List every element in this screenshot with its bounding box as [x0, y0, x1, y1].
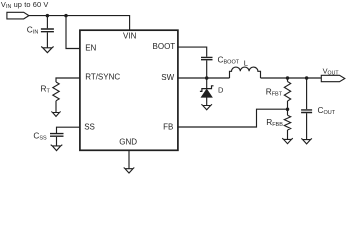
wire: diode anode to ground — [206, 97, 208, 105]
capacitor COUT — [301, 110, 312, 113]
inductor L — [230, 67, 261, 78]
ground (below CIN) — [41, 47, 53, 53]
node: output / RFBT junction — [286, 76, 290, 80]
ground (below COUT) — [301, 138, 312, 144]
capacitor CIN — [41, 29, 54, 32]
wire: RT to ground — [55, 101, 57, 113]
resistor RFBB — [284, 115, 290, 130]
wire: EN from top rail — [66, 16, 80, 49]
resistor RT — [53, 82, 59, 101]
wire: SW pin to inductor — [178, 77, 230, 79]
wire: CSS to ground — [56, 137, 58, 146]
ground (below CSS) — [51, 145, 63, 151]
wire: CIN to ground — [46, 32, 48, 47]
wire: SS to CSS — [57, 127, 80, 133]
ground (below RT) — [51, 112, 60, 117]
wire: RFBT to tap node — [287, 101, 289, 115]
wire: COUT to ground — [306, 113, 308, 139]
wire: inductor to VOUT — [261, 77, 322, 79]
svg-text:GND: GND — [119, 138, 137, 147]
diode D (anode triangle) — [201, 89, 212, 97]
capacitor CBOOT — [201, 57, 213, 59]
wire: FB pin to divider tap — [178, 109, 288, 127]
node: SW / CBOOT / diode junction — [205, 76, 209, 80]
svg-text:VIN: VIN — [123, 32, 137, 41]
wire: SW junction down to diode — [206, 78, 208, 89]
wire: BOOT to CBOOT — [178, 47, 207, 57]
resistor RFBT — [284, 82, 290, 102]
svg-text:SS: SS — [84, 122, 95, 131]
svg-text:BOOT: BOOT — [153, 42, 176, 51]
svg-text:L: L — [244, 59, 248, 68]
node: top rail / CIN junction — [46, 14, 50, 18]
svg-text:SW: SW — [161, 73, 174, 82]
wire: VIN flag to VIN pin (top rail) — [29, 16, 130, 31]
svg-text:RT/SYNC: RT/SYNC — [85, 72, 120, 81]
svg-text:D: D — [218, 85, 224, 94]
node: FB divider tap — [286, 107, 290, 111]
diode D (Schottky cathode bar) — [200, 86, 214, 92]
input terminal VIN flag — [7, 12, 29, 19]
IC U1 (regulator) — [80, 30, 178, 150]
svg-text:EN: EN — [85, 43, 96, 52]
node: top rail / EN junction — [64, 14, 68, 18]
wire: RFBB to ground — [287, 130, 289, 139]
wire: output junction down to COUT — [306, 78, 308, 109]
capacitor CSS — [50, 134, 64, 137]
output terminal VOUT flag — [321, 75, 345, 81]
wire: GND pin down — [128, 150, 130, 168]
wire: junction down to CIN — [46, 16, 48, 29]
wire: RT/SYNC to RT — [56, 78, 80, 82]
node: output / COUT junction — [305, 76, 309, 80]
ground (below GND pin) — [124, 168, 135, 174]
svg-text:FB: FB — [163, 123, 173, 132]
wire: CBOOT to SW rail — [206, 60, 208, 78]
wire: output junction down to RFBT — [287, 78, 289, 82]
ground (below diode) — [201, 104, 212, 110]
ground (below RFBB) — [282, 138, 293, 144]
